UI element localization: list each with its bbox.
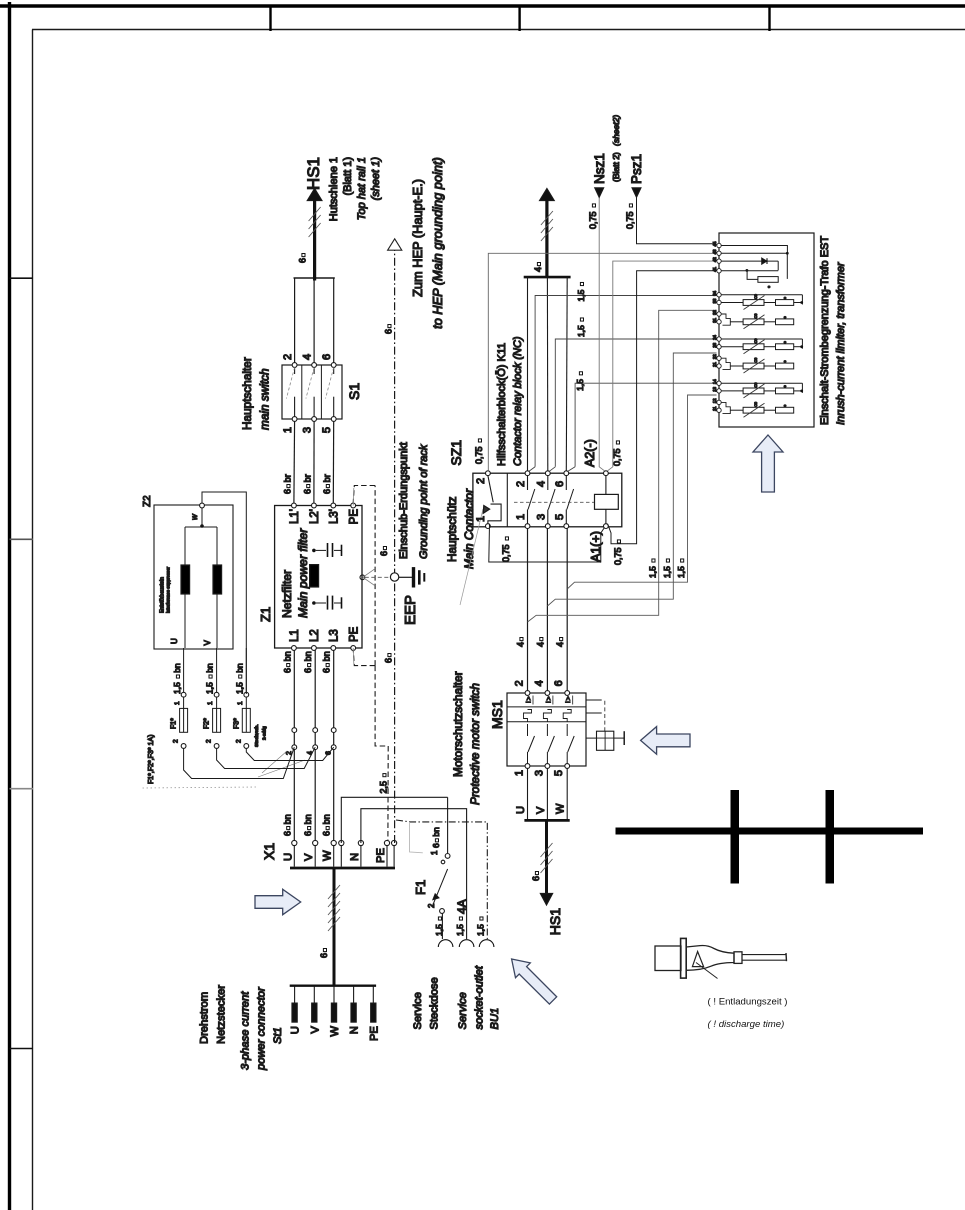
shield dashed continuation to X1 PE: [375, 666, 388, 841]
EST bank varistor stroke 1: [744, 384, 765, 398]
svg-text:Hutschiene 1: Hutschiene 1: [328, 157, 340, 221]
svg-text:MS1: MS1: [489, 700, 505, 729]
svg-text:5: 5: [554, 514, 566, 520]
svg-text:I: I: [545, 701, 552, 703]
EST bank jog t32 t31: [721, 358, 730, 369]
svg-text:6: 6: [283, 489, 293, 494]
svg-text:bn: bn: [205, 663, 215, 673]
svg-text:5: 5: [553, 770, 565, 776]
svg-text:U: U: [290, 1026, 302, 1034]
svg-text:Einschalt-Strombegrenzung-Traf: Einschalt-Strombegrenzung-Trafo EST: [819, 236, 831, 425]
EST terminal 14: [717, 381, 721, 385]
svg-text:(sheet2): (sheet2): [611, 115, 621, 146]
wire Z1 to S1 phase 1: [293, 419, 296, 503]
EST terminal 23: [717, 345, 721, 349]
svg-text:Psz1: Psz1: [629, 154, 644, 184]
svg-text:6: 6: [554, 481, 566, 487]
svg-text:V: V: [303, 853, 315, 861]
svg-text:42: 42: [712, 257, 717, 262]
frame tick left 2: [10, 538, 34, 540]
frame tick left 4: [10, 1048, 34, 1050]
wire service phase tap: [341, 797, 447, 843]
svg-text:C9: C9: [754, 313, 758, 318]
contactor divider: [506, 473, 508, 527]
svg-text:4: 4: [533, 267, 543, 272]
sheet inner border left: [32, 30, 34, 1210]
X1 terminal W: [333, 846, 335, 867]
gray step near PE: [410, 822, 423, 853]
wire phase X1 to Z1 y=294.3: [293, 648, 295, 840]
svg-text:br: br: [322, 474, 332, 482]
frame tick top 3: [768, 6, 770, 31]
svg-text:o: o: [783, 360, 787, 362]
mains plug pictogram body: [655, 938, 787, 978]
svg-text:C9: C9: [754, 338, 758, 343]
svg-text:F1*: F1*: [171, 718, 178, 729]
svg-text:1: 1: [514, 770, 526, 776]
svg-text:St1: St1: [272, 1027, 284, 1044]
EST terminal 21: [717, 364, 721, 368]
arrow marker MS1: [641, 727, 690, 755]
wire fuse 2 crossover: [214, 744, 219, 749]
svg-text:21: 21: [712, 362, 717, 367]
svg-text:4: 4: [555, 642, 565, 647]
wire Z1 to S1 phase 3: [332, 419, 334, 503]
frame tick top 1: [269, 6, 271, 31]
svg-text:Netzfilter: Netzfilter: [280, 570, 294, 618]
contact pole 5-6: [564, 524, 569, 529]
fuse F1*: [180, 708, 188, 732]
EST bank varistor stroke 1: [744, 340, 765, 354]
svg-text:6: 6: [298, 258, 308, 263]
X1 terminal aux (service tap): [340, 846, 342, 867]
wire fuse 3 crossover: [244, 744, 249, 749]
EST terminal 33: [717, 300, 721, 304]
wire St1 to X1 main feed: [333, 868, 336, 986]
svg-text:bn: bn: [303, 651, 313, 661]
svg-text:o: o: [783, 341, 787, 343]
EST bank at t915: [721, 294, 802, 296]
arrow marker supply: [255, 889, 301, 914]
svg-text:V: V: [535, 806, 547, 814]
svg-text:o: o: [783, 316, 787, 318]
svg-text:6: 6: [379, 551, 389, 556]
collector bracket after S1: [294, 278, 296, 363]
wire phase X1 to Z1 y=333.7: [333, 648, 335, 840]
hatch marks HS1: [309, 223, 321, 237]
svg-text:1,5: 1,5: [648, 566, 658, 578]
svg-text:PE: PE: [348, 509, 360, 525]
wire service N: [361, 809, 467, 939]
arrow marker BU1: [512, 959, 557, 1004]
MS1 pole at y=527.5: [525, 764, 530, 769]
svg-text:PE: PE: [348, 626, 360, 642]
svg-text:Motorschutzschalter: Motorschutzschalter: [451, 671, 465, 777]
hatch marks arrow 2: [541, 227, 553, 241]
EST return wire A (to phase 2): [528, 310, 717, 622]
svg-text:Grounding point of rack: Grounding point of rack: [418, 444, 430, 559]
X1 terminal N: [360, 846, 362, 867]
linkage dashed: [514, 501, 595, 503]
crop mark vertical bar 2: [826, 790, 835, 884]
svg-text:Contactor relay block (NC): Contactor relay block (NC): [512, 336, 524, 466]
svg-text:Service: Service: [457, 992, 469, 1029]
svg-text:6: 6: [322, 668, 332, 673]
svg-text:1,5: 1,5: [676, 566, 686, 578]
EST feed t34: [535, 296, 716, 467]
Z1 terminals left L1 L2 L3 PE: [292, 646, 297, 651]
tap connector circles upper: [292, 728, 297, 733]
svg-text:W: W: [322, 850, 334, 861]
shield node on Z1: [360, 575, 365, 580]
S1 pole 3: [331, 417, 336, 422]
Z1 PE right pigtail: [352, 488, 355, 506]
svg-text:4: 4: [302, 354, 314, 360]
svg-text:3: 3: [302, 427, 314, 433]
EST terminal 24: [717, 337, 721, 341]
svg-text:bn: bn: [282, 651, 292, 661]
X1 terminal V: [314, 846, 316, 867]
svg-text:o: o: [783, 405, 787, 407]
EST arrow marker: [753, 435, 783, 492]
svg-text:41: 41: [712, 266, 717, 271]
HS1 feed left: [545, 820, 548, 894]
svg-text:33: 33: [712, 298, 717, 303]
S1 cell dividers: [301, 365, 303, 419]
svg-text:bn: bn: [282, 814, 292, 824]
svg-text:1: 1: [174, 701, 181, 705]
MS1 pole at y=547.4: [545, 764, 550, 769]
svg-text:U: U: [170, 638, 179, 644]
dotted separator: [143, 787, 257, 788]
svg-text:br: br: [302, 474, 312, 482]
svg-text:HS1: HS1: [304, 157, 323, 190]
svg-text:A2(-): A2(-): [583, 439, 597, 467]
Z2 resistor upper: [184, 594, 186, 648]
EST bank chain 2: [743, 363, 764, 369]
aux2 wire to EST t43: [488, 253, 716, 471]
svg-text:F3*: F3*: [233, 718, 240, 729]
EST feed t24: [555, 339, 716, 467]
svg-text:W: W: [329, 1026, 341, 1037]
svg-text:to HEP (Main grounding point): to HEP (Main grounding point): [430, 157, 445, 329]
svg-text:12: 12: [712, 398, 717, 403]
wire fuse chain 1: [183, 648, 185, 695]
EST terminal 42: [717, 259, 721, 263]
bus bar feed: [524, 276, 571, 279]
svg-text:F2*: F2*: [204, 718, 211, 729]
X1 terminal PE: [386, 846, 388, 867]
svg-text:Hilfsschalterblock(Ö) K11: Hilfsschalterblock(Ö) K11: [496, 343, 508, 466]
shield dashed right drop: [353, 486, 375, 504]
svg-text:C9: C9: [754, 294, 758, 299]
svg-text:w: w: [190, 513, 199, 520]
EEP ground point circle: [390, 573, 398, 581]
svg-text:Top hat rail 1: Top hat rail 1: [356, 157, 368, 220]
svg-text:F1*,F2*,F3* 1A): F1*,F2*,F3* 1A): [148, 735, 155, 784]
EST bank varistor stroke 1: [744, 296, 765, 310]
svg-text:3-phase current: 3-phase current: [240, 991, 252, 1070]
svg-text:X1: X1: [261, 843, 277, 860]
MS1 dividers: [507, 721, 586, 723]
shield dashed left drop: [353, 649, 375, 666]
svg-text:4: 4: [516, 642, 526, 647]
frame tick top 2: [518, 6, 520, 31]
svg-text:1,5: 1,5: [234, 682, 244, 694]
hatch marks main feed: [328, 917, 340, 931]
F1 blade: [432, 869, 448, 907]
svg-text:2: 2: [206, 739, 213, 743]
Z2 resistor lower: [216, 594, 218, 648]
contactor SZ1 box: [473, 473, 622, 527]
EST diode group wiring: [721, 246, 787, 254]
wires MS1 to bar: [527, 768, 529, 819]
EST terminal 31: [717, 320, 721, 324]
fuse F3*: [242, 708, 250, 732]
svg-text:2: 2: [235, 739, 242, 743]
EST return wire C (to phase 6): [567, 395, 716, 589]
svg-text:(Blatt 2): (Blatt 2): [611, 152, 621, 182]
EST bank jog t32 t31: [721, 402, 730, 413]
svg-text:bn: bn: [234, 663, 244, 673]
EST bank chain 2: [743, 319, 764, 325]
svg-text:31: 31: [712, 317, 717, 322]
sheet border outer thick top: [0, 4, 965, 7]
shield V connection: [363, 569, 375, 578]
contact pole 3-4: [545, 524, 550, 529]
wire Psz1: [637, 197, 717, 244]
svg-text:bn: bn: [322, 651, 332, 661]
svg-text:6: 6: [282, 668, 292, 673]
svg-text:L1: L1: [289, 629, 301, 642]
svg-text:4: 4: [535, 481, 547, 487]
svg-text:EEP: EEP: [402, 595, 419, 625]
MS1 trip attachment: [586, 699, 602, 701]
svg-text:0,75: 0,75: [612, 448, 622, 466]
svg-text:32: 32: [712, 310, 717, 315]
inrush limiter EST box: [719, 233, 814, 427]
svg-text:L1': L1': [289, 509, 301, 524]
HS1 rail arrow: [307, 189, 322, 201]
X1 terminal aux (PE dash): [393, 846, 395, 867]
leader line to aux contact: [460, 509, 483, 605]
suppressor Z2 box: [154, 505, 233, 649]
crop mark vertical bar 1: [731, 790, 740, 884]
svg-text:4: 4: [535, 642, 545, 647]
wire A2 to Nsz1: [599, 197, 604, 471]
wire service PE dash-dot: [396, 820, 487, 939]
EST terminal 43: [717, 251, 721, 255]
EST return wire B (to phase 4): [547, 353, 716, 606]
svg-text:6: 6: [302, 489, 312, 494]
EST terminal 44: [717, 243, 721, 247]
svg-text:6: 6: [384, 329, 394, 334]
svg-text:2: 2: [427, 903, 436, 908]
svg-text:C9: C9: [754, 383, 758, 388]
wire fuse 1 crossover: [181, 744, 186, 749]
svg-text:socket-outlet: socket-outlet: [474, 965, 486, 1029]
EST terminal 34: [717, 293, 721, 297]
EST bank jog t32 t31: [721, 314, 730, 325]
wire MS1 to contactor y=547.4: [546, 529, 548, 691]
wire MS1 to contactor y=527.5: [527, 529, 529, 691]
svg-text:Main Contactor: Main Contactor: [462, 488, 476, 569]
sheet border outer thick left: [8, 2, 11, 1210]
EST terminal 32: [717, 312, 721, 316]
svg-text:Netzstecker: Netzstecker: [216, 985, 228, 1044]
svg-text:bn: bn: [303, 814, 313, 824]
socket outlet BU1 arcs: [438, 940, 453, 947]
motor switch MS1 box: [507, 693, 586, 766]
crop mark horizontal bar: [616, 828, 924, 835]
svg-text:6: 6: [384, 658, 394, 663]
EST terminal 13: [717, 389, 721, 393]
svg-text:(sheet 1): (sheet 1): [370, 157, 382, 201]
EST terminal 12: [717, 400, 721, 404]
svg-text:SZ1: SZ1: [448, 440, 464, 466]
hatch marks HS1 left: [541, 859, 553, 873]
S1 pole 1: [292, 417, 297, 422]
Z1 capacitor right: [312, 549, 316, 553]
svg-text:bn: bn: [172, 663, 182, 673]
svg-text:6: 6: [303, 668, 313, 673]
bar U V W: [524, 819, 569, 822]
svg-text:2,5: 2,5: [379, 781, 389, 794]
svg-text:interference suppressor: interference suppressor: [166, 566, 171, 613]
EST diode: [721, 260, 778, 262]
svg-text:2-adrig: 2-adrig: [262, 726, 267, 740]
svg-text:6: 6: [553, 680, 565, 686]
svg-text:2: 2: [515, 481, 527, 487]
svg-text:U: U: [515, 806, 527, 814]
Z2 junction node: [185, 526, 217, 528]
svg-text:1: 1: [207, 701, 214, 705]
svg-text:13: 13: [712, 386, 717, 391]
wire Z1 to S1 phase 2: [313, 419, 315, 503]
Z2 bypass wire to fuse chain 3: [202, 492, 246, 694]
EST terminal 22: [717, 356, 721, 360]
Z1 capacitor left: [312, 601, 316, 605]
wire A2 to EST t42: [608, 261, 717, 471]
Z1 inductor: [310, 565, 319, 587]
svg-text:3: 3: [535, 514, 547, 520]
svg-text:0,75: 0,75: [588, 211, 598, 229]
svg-text:22: 22: [712, 354, 717, 359]
HEP open arrow: [388, 239, 402, 250]
sheet inner border top: [32, 29, 965, 31]
contact pole 1-2: [525, 524, 530, 529]
Z1 PE left pigtail to shield: [352, 648, 355, 664]
wire fuse chain 3: [245, 648, 247, 695]
svg-text:o: o: [766, 285, 771, 288]
EST terminal 41: [717, 269, 721, 273]
svg-text:6: 6: [282, 831, 292, 836]
svg-text:2: 2: [173, 739, 180, 743]
svg-text:Hauptschütz: Hauptschütz: [445, 496, 459, 562]
svg-text:PE: PE: [375, 848, 387, 863]
svg-text:14: 14: [712, 379, 717, 384]
main switch S1 box: [282, 365, 342, 419]
svg-text:Protective motor switch: Protective motor switch: [468, 683, 482, 805]
EST bank at t871: [721, 338, 802, 340]
svg-text:Nsz1: Nsz1: [592, 153, 607, 184]
Z1 terminals right L1p L2p L3p PE: [292, 503, 297, 508]
svg-text:Inrush-current limiter, transf: Inrush-current limiter, transformer: [835, 261, 847, 425]
svg-text:6: 6: [303, 831, 313, 836]
svg-text:N: N: [349, 1026, 361, 1034]
svg-text:1,5: 1,5: [205, 682, 215, 694]
rail arrow 2: [540, 189, 555, 201]
svg-text:23: 23: [712, 342, 717, 347]
svg-text:Hauptschalter: Hauptschalter: [240, 357, 254, 430]
wire A1 to EST t41: [608, 271, 717, 544]
svg-text:(Blatt 1): (Blatt 1): [342, 157, 354, 196]
svg-text:V: V: [309, 1026, 321, 1034]
wire MS1 to contactor y=567.2: [566, 529, 568, 691]
svg-text:6: 6: [319, 953, 329, 958]
wire phase X1 to Z1 y=315.2: [314, 648, 316, 840]
EST feed t14: [575, 383, 716, 467]
svg-text:o: o: [783, 385, 787, 387]
svg-text:1,5: 1,5: [476, 924, 486, 936]
svg-text:1,5: 1,5: [455, 924, 465, 936]
svg-text:1,5: 1,5: [576, 289, 586, 301]
svg-text:Main power filter: Main power filter: [296, 528, 310, 618]
svg-text:F1: F1: [413, 880, 428, 895]
svg-text:1,5: 1,5: [434, 924, 444, 936]
svg-text:>: >: [546, 696, 553, 700]
svg-text:44: 44: [712, 241, 717, 246]
svg-text:Z1: Z1: [258, 607, 273, 622]
svg-text:1,5: 1,5: [575, 379, 585, 391]
svg-text:6: 6: [322, 489, 332, 494]
svg-text:0,75: 0,75: [613, 547, 623, 565]
svg-text:6: 6: [431, 843, 441, 848]
svg-text:>: >: [566, 696, 573, 700]
svg-text:HS1: HS1: [547, 908, 563, 935]
svg-text:1: 1: [475, 516, 487, 522]
EST bank chain 2: [743, 407, 764, 413]
wires contactor pins to bar: [527, 277, 529, 471]
svg-text:2: 2: [475, 478, 487, 484]
svg-text:N: N: [349, 853, 361, 861]
svg-text:Drehstrom: Drehstrom: [199, 992, 211, 1044]
svg-text:I: I: [526, 701, 533, 703]
svg-text:L3': L3': [329, 509, 341, 524]
svg-text:6: 6: [531, 876, 541, 881]
svg-text:o: o: [783, 297, 787, 299]
coil: [595, 494, 619, 509]
svg-text:C9: C9: [754, 358, 758, 363]
F1 pin2 and wire to outlet: [440, 909, 445, 914]
svg-text:I: I: [565, 701, 572, 703]
MS1 pole at y=567.2: [565, 764, 570, 769]
svg-text:BU1: BU1: [489, 1008, 501, 1030]
svg-text:main switch: main switch: [258, 368, 272, 430]
dash-dot main grounding line (Zum HEP): [394, 250, 396, 843]
svg-text:Einschub-Erdungspunkt: Einschub-Erdungspunkt: [398, 442, 410, 559]
svg-text:Service: Service: [412, 992, 424, 1029]
filter Z1 box: [275, 506, 362, 649]
shield dashed rail under Z1: [374, 486, 376, 666]
off sheet arrow Psz1: [632, 188, 641, 197]
frame tick left 3: [10, 788, 34, 790]
svg-text:1,5: 1,5: [662, 566, 672, 578]
svg-text:6: 6: [322, 831, 332, 836]
terminal strip X1: [290, 867, 395, 870]
svg-text:br: br: [283, 474, 293, 482]
S1 pole 2: [312, 417, 317, 422]
